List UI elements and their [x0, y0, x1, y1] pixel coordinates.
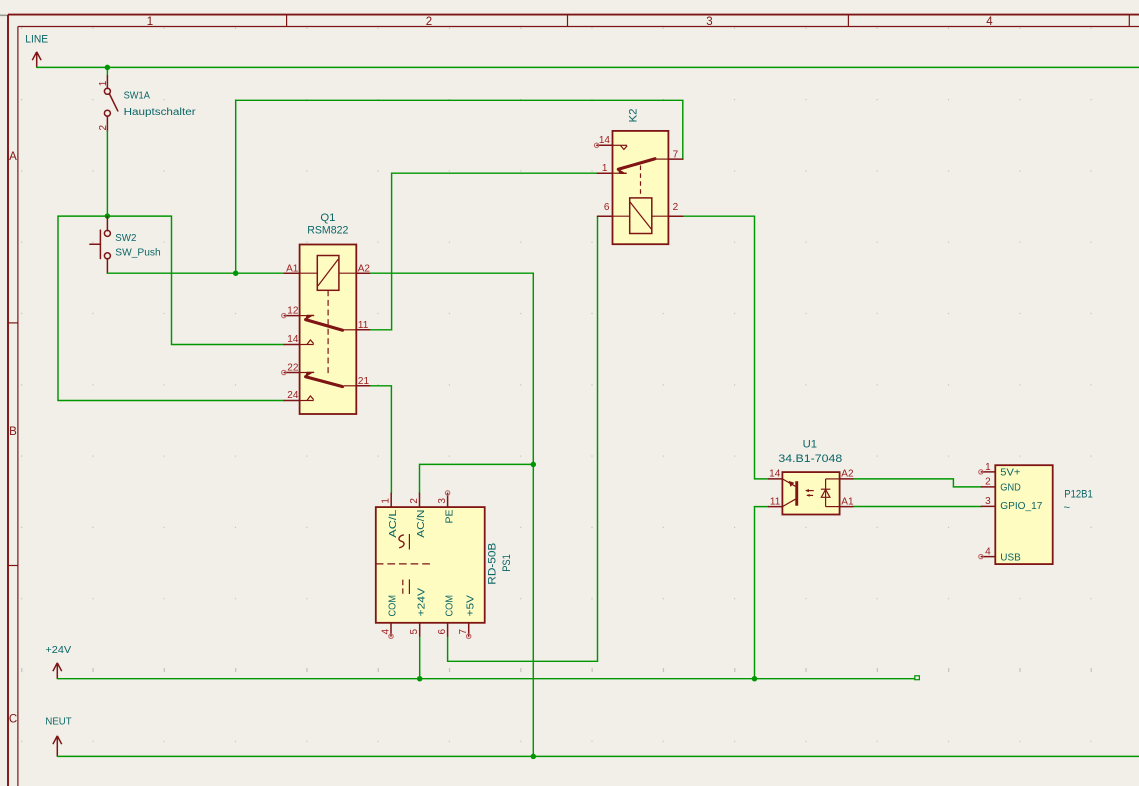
svg-text:RSM822: RSM822: [307, 225, 348, 237]
svg-text:USB: USB: [1000, 552, 1021, 563]
svg-text:14: 14: [769, 469, 781, 480]
svg-text:1: 1: [147, 16, 153, 28]
pin 1 of PS1 AC/L: [381, 493, 399, 538]
svg-text:6: 6: [437, 629, 448, 635]
wire Q1 pin11 to K2 pin1: [370, 173, 598, 330]
pin 2 of PS1 AC/N: [409, 493, 427, 538]
wire SW2 node to Q1 pin14: [107, 216, 284, 344]
pin 6 of K2: [598, 202, 613, 216]
svg-text:1: 1: [98, 80, 109, 86]
svg-text:3: 3: [437, 498, 448, 504]
wire K2 pin2 to U1 pin14: [683, 216, 769, 479]
pin 2 of K2: [668, 202, 682, 216]
svg-text:4: 4: [381, 629, 392, 635]
pin 7 of K2: [668, 149, 682, 160]
wire SW2 node to Q1 pin24: [58, 216, 284, 400]
svg-text:A: A: [9, 151, 17, 163]
pin 21 of Q1: [356, 376, 369, 387]
svg-text:C: C: [9, 714, 17, 726]
svg-text:4: 4: [986, 16, 993, 28]
wire SW1A pin2 to SW2 node: [106, 131, 108, 216]
power supply PS1 RD-50B: [376, 507, 485, 623]
svg-text:34.B1-7048: 34.B1-7048: [778, 453, 842, 465]
svg-text:~: ~: [1064, 502, 1071, 514]
svg-text:2: 2: [985, 477, 991, 488]
svg-text:2: 2: [426, 16, 432, 28]
dangling end of +24V rail: [915, 676, 920, 680]
svg-text:5: 5: [409, 629, 420, 635]
wire U1 A1 to P12B1 pin3: [853, 506, 981, 508]
svg-text:6: 6: [604, 202, 610, 213]
wire PS1 pin5 to +24V rail: [419, 636, 421, 679]
svg-text:Q1: Q1: [320, 212, 335, 224]
svg-text:P12B1: P12B1: [1064, 488, 1093, 500]
svg-text:A2: A2: [841, 469, 854, 480]
wire SW2 to Q1 pin A1: [107, 272, 284, 274]
junction on A1 wire: [233, 270, 239, 276]
wire NEUT rail: [57, 755, 1139, 757]
relay Q1 RSM822: [300, 245, 357, 415]
switch SW1A Hauptschalter: [104, 67, 117, 131]
svg-text:7: 7: [673, 149, 679, 160]
pin 1 of K2: [597, 163, 612, 174]
svg-text:14: 14: [599, 135, 611, 146]
svg-text:+24V: +24V: [45, 645, 71, 656]
svg-text:SW2: SW2: [115, 233, 137, 244]
solid state relay U1 34.B1-7048: [782, 472, 839, 514]
pin A2 of U1: [840, 469, 854, 480]
pin 14 of K2: [594, 135, 612, 148]
junction at SW2 node: [105, 213, 111, 219]
wire Q1 pin21 to PS1 pin1: [370, 386, 392, 494]
svg-text:GPIO_17: GPIO_17: [1000, 501, 1043, 512]
svg-text:3: 3: [985, 496, 991, 507]
wire U1 pin11 to +24V rail: [755, 507, 769, 679]
pin 11 of U1: [769, 496, 783, 507]
svg-text:1: 1: [985, 462, 991, 473]
svg-text:11: 11: [770, 496, 781, 507]
svg-text:+5V: +5V: [465, 595, 476, 617]
svg-text:12: 12: [287, 306, 299, 317]
net label NEUT: [45, 717, 71, 757]
relay K2: [613, 131, 669, 244]
junction NEUT at A2 wire: [531, 754, 537, 760]
wire Q1 pin A2 to NEUT rail: [370, 273, 534, 756]
pin 14 of Q1: [284, 334, 299, 345]
pin 7 of PS1 +5V: [458, 595, 476, 639]
pin 22 of Q1: [282, 362, 300, 374]
svg-text:Hauptschalter: Hauptschalter: [124, 107, 197, 118]
junction on LINE rail at SW1A: [105, 65, 111, 71]
svg-text:RD-50B: RD-50B: [486, 543, 498, 585]
wire A1 node to K2 pin7: [236, 100, 683, 273]
pin 4 of PS1 COM: [381, 595, 399, 639]
svg-text:COM: COM: [444, 595, 455, 617]
pin 3 of PS1 PE: [437, 491, 455, 524]
svg-text:4: 4: [985, 546, 991, 557]
wire LINE rail: [37, 66, 1139, 68]
pin 24 of Q1: [284, 390, 299, 401]
pin 6 of PS1 COM: [437, 595, 455, 636]
pin 5 of PS1 +24V: [409, 588, 427, 636]
svg-text:NEUT: NEUT: [45, 717, 71, 728]
junction +24V at U1 wire: [752, 676, 758, 682]
pin 1 of P12B1 5V+: [979, 462, 1021, 479]
svg-text:LINE: LINE: [25, 33, 48, 45]
svg-text:5V+: 5V+: [1000, 468, 1020, 479]
svg-text:2: 2: [673, 202, 679, 213]
pin 3 of P12B1 GPIO_17: [981, 496, 1043, 512]
net label +24V: [45, 645, 71, 679]
svg-text:24: 24: [287, 390, 299, 401]
junction +24V at PS1 pin5: [417, 676, 423, 682]
switch SW2 SW_Push: [90, 216, 111, 273]
svg-text:SW1A: SW1A: [124, 91, 151, 102]
svg-text:AC/N: AC/N: [416, 510, 427, 538]
svg-text:14: 14: [287, 334, 299, 345]
pin A1 of U1: [840, 496, 854, 507]
svg-text:B: B: [9, 426, 17, 438]
wire K2 pin6 to PS1 pin6: [448, 216, 598, 661]
svg-text:21: 21: [358, 376, 370, 387]
wire +24V rail: [57, 678, 915, 680]
pin A1 of Q1: [284, 263, 299, 274]
pin 14 of U1: [769, 469, 783, 480]
net label LINE: [25, 33, 48, 67]
svg-text:2: 2: [98, 125, 109, 131]
pin 4 of P12B1 USB: [979, 546, 1021, 563]
pin 11 of Q1: [356, 320, 369, 331]
svg-text:PS1: PS1: [501, 554, 513, 572]
svg-text:PE: PE: [444, 509, 455, 523]
svg-text:+24V: +24V: [416, 588, 427, 617]
pin A2 of Q1: [356, 263, 370, 274]
svg-text:SW_Push: SW_Push: [115, 247, 160, 258]
svg-text:22: 22: [287, 362, 299, 373]
junction AC/N tap: [531, 462, 537, 468]
svg-text:1: 1: [602, 163, 608, 174]
connector P12B1: [995, 465, 1052, 564]
svg-text:AC/L: AC/L: [388, 509, 399, 538]
svg-text:7: 7: [458, 629, 469, 635]
wire PS1 pin2 AC/N tap: [420, 464, 534, 493]
svg-text:3: 3: [706, 16, 712, 28]
wire U1 A2 to P12B1 pin2: [853, 479, 981, 487]
svg-text:11: 11: [358, 320, 369, 331]
pin 12 of Q1: [282, 306, 300, 318]
svg-text:1: 1: [381, 498, 392, 504]
svg-text:2: 2: [409, 498, 420, 504]
svg-text:A1: A1: [286, 263, 299, 274]
pin 2 of P12B1 GND: [981, 477, 1021, 494]
svg-text:COM: COM: [388, 595, 399, 617]
svg-text:U1: U1: [803, 439, 817, 451]
svg-text:GND: GND: [1000, 482, 1021, 493]
svg-text:K2: K2: [628, 109, 640, 123]
svg-text:A1: A1: [841, 496, 854, 507]
svg-text:A2: A2: [358, 263, 371, 274]
